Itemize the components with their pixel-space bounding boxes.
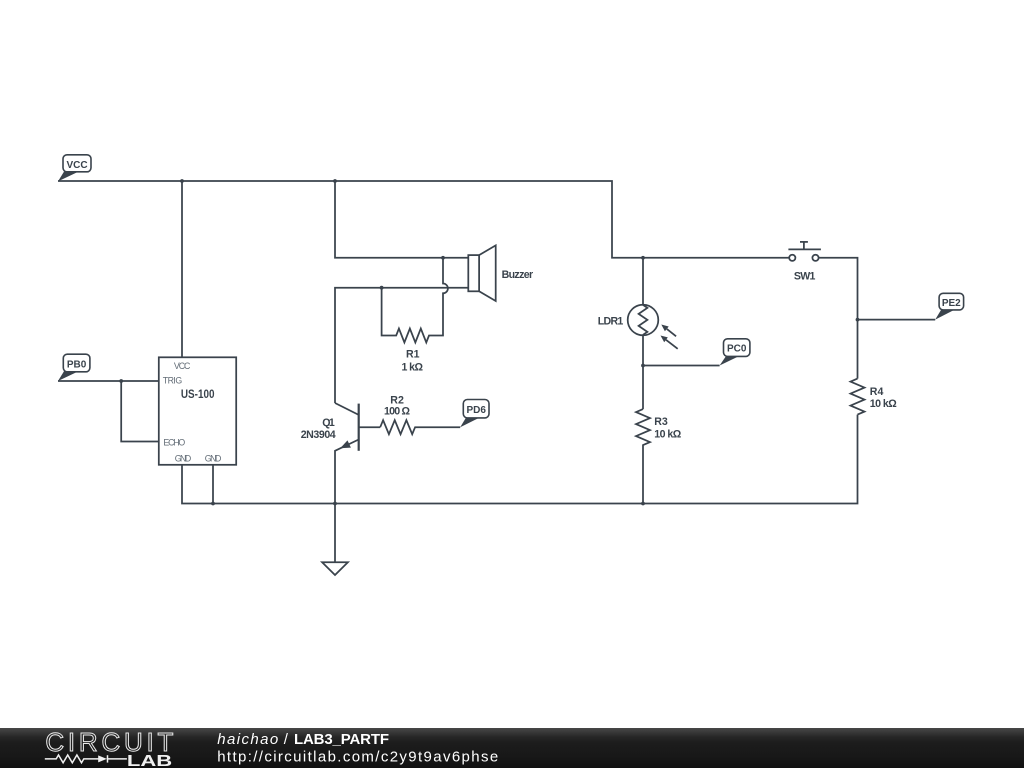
svg-text:2N3904: 2N3904 xyxy=(301,429,336,441)
svg-text:GND: GND xyxy=(205,453,222,463)
svg-text:haichao: haichao xyxy=(217,731,278,748)
svg-text:100 Ω: 100 Ω xyxy=(384,406,411,418)
svg-text:LDR1: LDR1 xyxy=(598,315,624,327)
svg-text:GND: GND xyxy=(175,453,192,463)
svg-text:1 kΩ: 1 kΩ xyxy=(402,361,424,373)
svg-text:ECHO: ECHO xyxy=(163,437,185,447)
svg-text:10 kΩ: 10 kΩ xyxy=(870,398,898,410)
svg-text:VCC: VCC xyxy=(66,160,87,171)
svg-text:PD6: PD6 xyxy=(466,405,486,416)
svg-text:LAB3_PARTF: LAB3_PARTF xyxy=(294,731,389,748)
svg-text:LAB: LAB xyxy=(127,753,172,768)
svg-text:10 kΩ: 10 kΩ xyxy=(654,429,682,441)
svg-text:US-100: US-100 xyxy=(181,387,215,401)
svg-text:R4: R4 xyxy=(870,386,884,398)
svg-text:PE2: PE2 xyxy=(942,298,961,309)
svg-text:TRIG: TRIG xyxy=(163,376,183,386)
svg-text:SW1: SW1 xyxy=(794,271,816,283)
svg-text:/: / xyxy=(284,731,289,748)
svg-text:PC0: PC0 xyxy=(727,344,747,355)
svg-text:PB0: PB0 xyxy=(67,360,87,371)
svg-text:R2: R2 xyxy=(390,394,404,406)
svg-text:Q1: Q1 xyxy=(322,417,335,429)
svg-text:http://circuitlab.com/c2y9t9av: http://circuitlab.com/c2y9t9av6phse xyxy=(217,749,498,766)
svg-text:VCC: VCC xyxy=(174,361,191,371)
svg-text:R3: R3 xyxy=(654,416,668,428)
svg-text:R1: R1 xyxy=(406,349,420,361)
svg-text:Buzzer: Buzzer xyxy=(502,269,533,281)
